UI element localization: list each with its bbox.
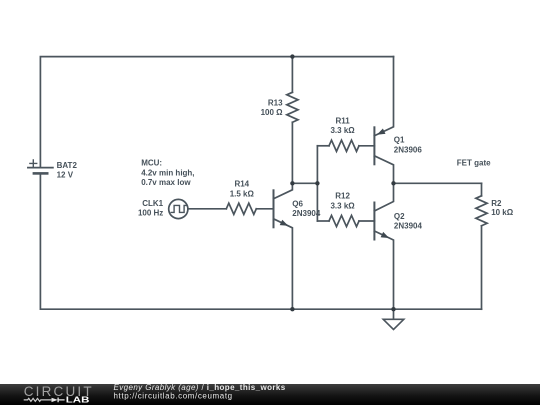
junction ground bottom bbox=[391, 307, 395, 311]
svg-text:MCU:: MCU: bbox=[141, 159, 162, 168]
resistor R14 zigzag bbox=[226, 203, 256, 214]
transistor Q6 NPN arrow bbox=[280, 220, 289, 226]
svg-text:2N3904: 2N3904 bbox=[394, 221, 423, 230]
resistor R13 zigzag bbox=[287, 92, 298, 122]
svg-text:Q1: Q1 bbox=[394, 136, 405, 145]
svg-text:2N3904: 2N3904 bbox=[292, 209, 321, 218]
battery BAT2 plus sign bbox=[30, 160, 37, 167]
svg-text:100 Hz: 100 Hz bbox=[138, 208, 163, 217]
wire FET gate net bbox=[394, 182, 482, 184]
svg-text:12 V: 12 V bbox=[57, 171, 74, 180]
resistor R2 zigzag bbox=[476, 196, 487, 226]
ground stub bbox=[393, 309, 395, 319]
transistor Q6 emitter bbox=[274, 219, 293, 309]
transistor Q6 bar bbox=[273, 190, 275, 227]
resistor R11 zigzag bbox=[329, 140, 359, 151]
svg-text:1.5 kΩ: 1.5 kΩ bbox=[230, 189, 255, 198]
battery BAT2 long plate bbox=[28, 167, 53, 169]
resistor R2 top lead bbox=[481, 183, 483, 196]
transistor Q2 NPN arrow bbox=[381, 232, 390, 238]
svg-text:Q2: Q2 bbox=[394, 212, 405, 221]
svg-text:http://circuitlab.com/ceumatg: http://circuitlab.com/ceumatg bbox=[114, 392, 233, 401]
transistor Q1 collector bbox=[374, 156, 393, 184]
svg-text:R2: R2 bbox=[491, 199, 502, 208]
wire R13 bottom to divider rail bbox=[292, 182, 317, 184]
transistor Q1 emitter bbox=[374, 57, 393, 136]
svg-text:2N3906: 2N3906 bbox=[394, 145, 423, 154]
transistor Q6 collector bbox=[274, 183, 293, 199]
clock source CLK1 circle bbox=[169, 199, 188, 218]
wire R14 to Q6 base bbox=[256, 208, 273, 210]
svg-text:4.2v min high,: 4.2v min high, bbox=[141, 168, 194, 177]
svg-text:R14: R14 bbox=[234, 180, 249, 189]
svg-text:0.7v max low: 0.7v max low bbox=[141, 178, 191, 187]
junction Q1 Q2 collectors bbox=[391, 181, 395, 185]
transistor Q2 emitter bbox=[374, 231, 393, 309]
transistor Q1 PNP arrow bbox=[377, 129, 386, 135]
wire top rail bbox=[40, 57, 393, 168]
wire divider rail vertical bbox=[316, 146, 318, 221]
resistor R12 zigzag bbox=[329, 215, 359, 226]
transistor Q2 bar bbox=[373, 203, 375, 240]
wire R12 to Q2 base bbox=[359, 220, 374, 222]
junction divider mid bbox=[315, 181, 319, 185]
resistor R12 left lead bbox=[317, 220, 329, 222]
battery BAT2 short plate bbox=[34, 172, 47, 175]
svg-text:3.3 kΩ: 3.3 kΩ bbox=[330, 126, 355, 135]
svg-text:10 kΩ: 10 kΩ bbox=[491, 208, 514, 217]
resistor R13 top lead bbox=[291, 57, 293, 93]
logo resistor zigzag bbox=[24, 398, 52, 401]
wire CLK1 to R14 bbox=[188, 208, 226, 210]
svg-text:100 Ω: 100 Ω bbox=[261, 108, 284, 117]
resistor R13 bottom lead bbox=[291, 122, 293, 183]
logo diode bbox=[52, 398, 58, 402]
ground triangle bbox=[383, 319, 404, 329]
svg-text:R12: R12 bbox=[335, 192, 350, 201]
svg-text:CLK1: CLK1 bbox=[142, 199, 163, 208]
svg-text:R11: R11 bbox=[335, 116, 350, 125]
clock source CLK1 square wave glyph bbox=[171, 205, 186, 212]
svg-text:R13: R13 bbox=[268, 98, 283, 107]
svg-text:LAB: LAB bbox=[66, 395, 90, 405]
wire R11 to Q1 base bbox=[359, 145, 374, 147]
svg-text:Q6: Q6 bbox=[292, 199, 303, 208]
resistor R2 bottom lead bbox=[481, 226, 483, 309]
resistor R11 left lead bbox=[317, 145, 329, 147]
transistor Q1 bar bbox=[373, 127, 375, 164]
logo diode cathode and lead bbox=[58, 398, 65, 403]
svg-text:BAT2: BAT2 bbox=[57, 161, 78, 170]
wire left rail lower bbox=[40, 173, 481, 309]
junction R13 bottom bbox=[290, 181, 294, 185]
transistor Q2 collector bbox=[374, 183, 393, 211]
svg-text:FET gate: FET gate bbox=[457, 158, 491, 167]
junction Q6 emitter bottom bbox=[290, 307, 294, 311]
footer bar bbox=[0, 384, 540, 405]
junction top R13 bbox=[290, 54, 294, 58]
svg-text:3.3 kΩ: 3.3 kΩ bbox=[330, 202, 355, 211]
